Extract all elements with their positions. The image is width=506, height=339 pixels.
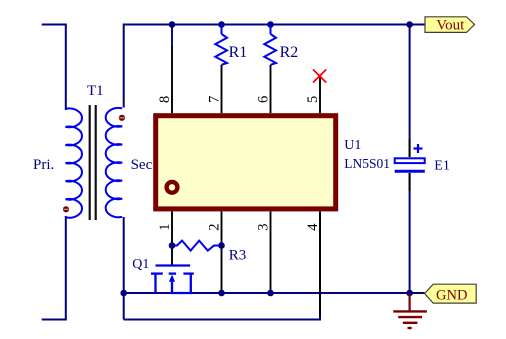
svg-text:1: 1 <box>157 223 173 230</box>
transformer T1 secondary winding <box>106 108 123 217</box>
transformer T1 primary winding <box>66 108 83 217</box>
resistor R2 <box>270 25 272 35</box>
svg-text:R2: R2 <box>280 44 299 61</box>
svg-text:T1: T1 <box>87 83 104 99</box>
junction dot ground rail / E1 <box>406 290 413 297</box>
wire: lower return path to pin 4 <box>124 211 320 319</box>
svg-text:Vout: Vout <box>436 18 465 34</box>
svg-text:8: 8 <box>157 96 173 103</box>
svg-text:GND: GND <box>436 287 467 303</box>
junction dot R3 left / pin 1 <box>169 242 176 249</box>
transformer T1 primary polarity dot <box>63 206 69 212</box>
pin 6 lead <box>270 65 272 113</box>
port GND flag <box>425 284 477 303</box>
junction dot top rail R2 <box>267 21 274 28</box>
transistor Q1 (MOSFET) gate bar <box>156 264 191 266</box>
pin 3 lead <box>270 211 272 293</box>
wire: primary bottom stub <box>42 216 66 320</box>
no-ERC marker X on pin 5 <box>313 70 326 83</box>
capacitor E1 positive plate <box>409 139 411 157</box>
ground symbol <box>409 293 411 311</box>
junction dot top rail R1 <box>218 21 225 28</box>
Q1 source stem <box>190 274 192 293</box>
wire: E1 / Vout vertical <box>409 25 411 158</box>
svg-text:Sec.: Sec. <box>131 157 156 173</box>
junction dot pin 3 / ground rail <box>267 290 274 297</box>
pin 7 lead <box>221 65 223 113</box>
transformer T1 secondary polarity dot <box>119 115 125 121</box>
Q1 source contact bar <box>183 272 193 274</box>
pin 1 lead <box>171 211 173 265</box>
IC U1 LN5S01 body <box>156 116 336 209</box>
junction dot pin 2 / ground rail <box>218 290 225 297</box>
svg-text:Q1: Q1 <box>132 257 149 272</box>
wire: primary top stub <box>42 25 66 111</box>
transformer T1 core <box>89 105 91 220</box>
U1 pin-1 indicator donut <box>167 182 178 193</box>
wire: top rail <box>124 25 425 108</box>
resistor R3 <box>172 241 222 251</box>
svg-text:3: 3 <box>256 223 272 230</box>
port Vout flag <box>425 17 475 33</box>
pin 5 stub <box>319 77 321 113</box>
svg-text:E1: E1 <box>434 159 450 174</box>
Q1 bulk arrow <box>169 275 175 282</box>
svg-text:R3: R3 <box>229 247 247 263</box>
Q1 drain contact bar <box>151 272 163 274</box>
Q1 drain stem <box>154 274 156 293</box>
pin 8 lead <box>171 46 173 113</box>
junction dot top rail Vout <box>406 21 413 28</box>
svg-text:R1: R1 <box>229 44 248 61</box>
svg-text:6: 6 <box>256 96 272 103</box>
Q1 source-bulk link <box>171 292 192 294</box>
wire: bottom ground rail <box>124 292 425 294</box>
pin 2 lead <box>221 211 223 293</box>
Q1 bulk contact bar <box>169 272 176 274</box>
svg-text:5: 5 <box>305 96 321 103</box>
junction dot secondary / ground rail <box>120 290 127 297</box>
junction dot R3 right / pin 2 <box>218 242 225 249</box>
svg-text:U1: U1 <box>344 138 361 153</box>
svg-text:7: 7 <box>207 96 223 103</box>
wire: pin 8 vertical <box>171 25 173 47</box>
svg-text:2: 2 <box>207 223 223 230</box>
svg-text:Pri.: Pri. <box>33 157 54 173</box>
wire: secondary bottom lead down to rails <box>123 217 125 320</box>
capacitor E1 negative plate <box>395 170 425 173</box>
junction dot top rail pin 8 <box>169 21 176 28</box>
svg-text:4: 4 <box>305 223 321 231</box>
svg-text:LN5S01: LN5S01 <box>344 156 390 171</box>
E1 plus sign <box>414 147 423 149</box>
resistor R1 <box>221 25 223 35</box>
